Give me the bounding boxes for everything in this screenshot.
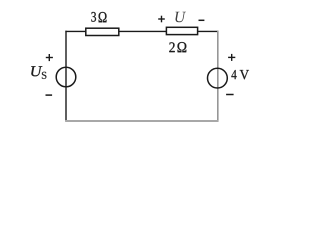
- source 4V value label: [231, 70, 249, 79]
- wire top-left segment: [65, 30, 85, 32]
- plus sign of voltage U over R2: [158, 16, 165, 23]
- voltage source 4V circle: [208, 68, 228, 88]
- voltage label U over R2: [175, 12, 186, 23]
- resistor R2 (2 ohm) body: [166, 27, 197, 34]
- minus sign of voltage U over R2: [199, 19, 205, 21]
- wire top-right segment: [198, 30, 219, 32]
- wire left vertical: [65, 31, 67, 122]
- source Us label: [31, 66, 42, 76]
- voltage source Us circle: [56, 67, 76, 87]
- plus sign of source Us: [46, 54, 53, 61]
- wire top-middle segment: [119, 30, 167, 32]
- resistor R1 (3 ohm) body: [86, 28, 119, 35]
- resistor R1 value label 3Ω: [91, 12, 106, 22]
- minus sign of source 4V: [226, 94, 234, 96]
- wire bottom horizontal: [65, 120, 218, 122]
- minus sign of source Us: [46, 94, 53, 96]
- source Us label subscript S: [42, 72, 47, 79]
- plus sign of source 4V: [228, 54, 235, 61]
- resistor R2 value label 2Ω: [169, 42, 186, 52]
- wire right vertical: [217, 31, 219, 122]
